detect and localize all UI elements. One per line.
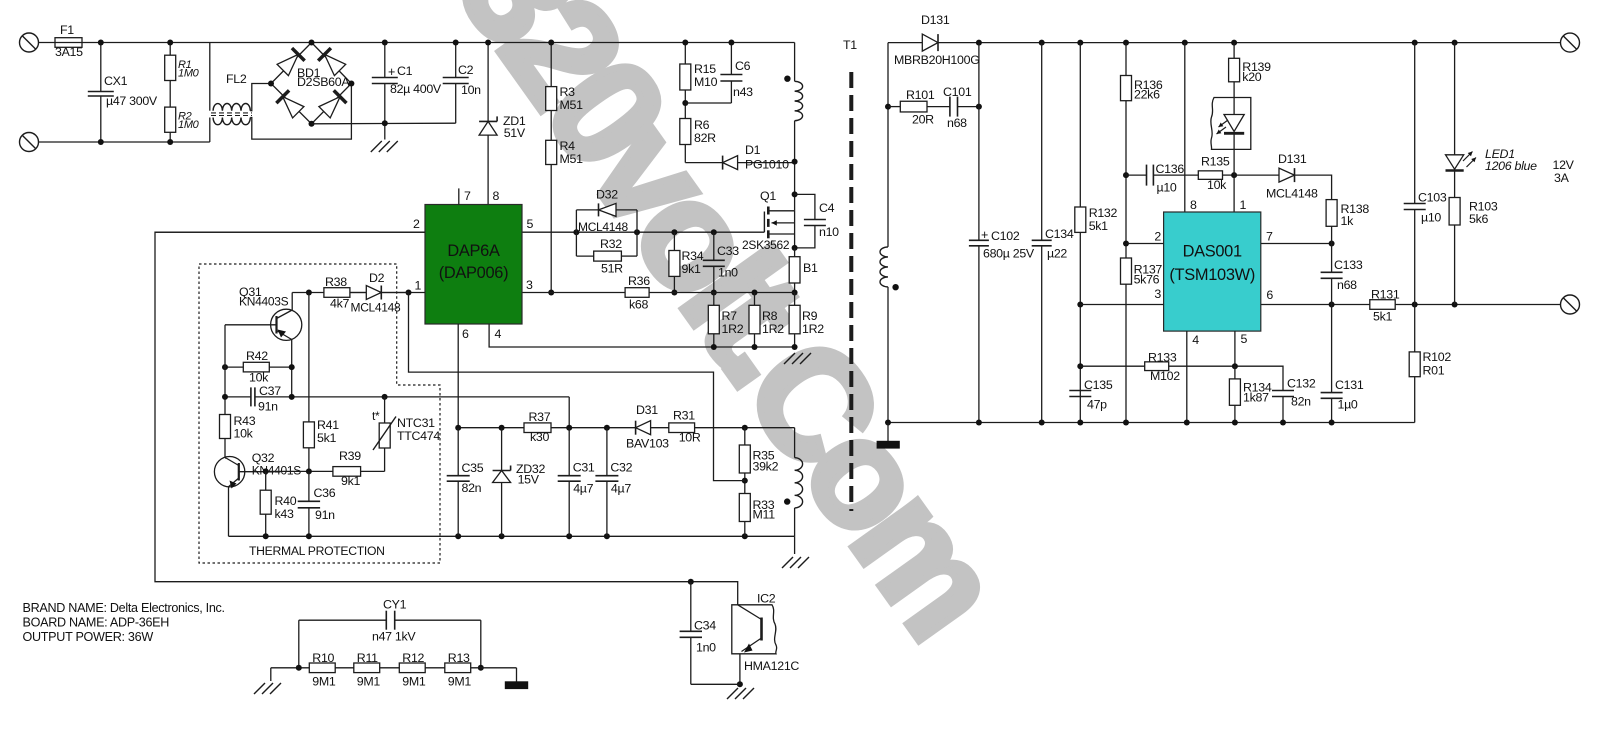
svg-text:D131: D131 [1278, 152, 1307, 166]
svg-text:10n: 10n [461, 83, 481, 97]
svg-text:R132: R132 [1089, 206, 1118, 220]
svg-text:R42: R42 [246, 349, 268, 363]
svg-text:8: 8 [1190, 198, 1197, 212]
svg-text:C134: C134 [1045, 227, 1074, 241]
svg-text:BRAND NAME: Delta Electronics,: BRAND NAME: Delta Electronics, Inc. [23, 601, 225, 615]
svg-text:15V: 15V [518, 473, 540, 487]
svg-text:9k1: 9k1 [341, 474, 360, 488]
svg-text:4: 4 [495, 327, 502, 341]
svg-text:1206 blue: 1206 blue [1485, 159, 1537, 173]
svg-text:R36: R36 [628, 274, 650, 288]
svg-text:51R: 51R [601, 262, 623, 276]
svg-text:9M1: 9M1 [312, 675, 336, 689]
svg-text:R102: R102 [1423, 350, 1452, 364]
svg-text:KN4403S: KN4403S [239, 295, 289, 309]
svg-text:D131: D131 [921, 13, 950, 27]
svg-text:91n: 91n [258, 400, 278, 414]
svg-text:R13: R13 [448, 651, 470, 665]
svg-text:82n: 82n [462, 481, 482, 495]
svg-text:PG1010: PG1010 [745, 158, 789, 172]
svg-text:MCL4148: MCL4148 [578, 220, 629, 234]
svg-text:HMA121C: HMA121C [744, 659, 799, 673]
svg-text:M51: M51 [560, 98, 584, 112]
svg-text:n68: n68 [947, 116, 967, 130]
svg-text:MBRB20H100G: MBRB20H100G [894, 53, 980, 67]
svg-text:C33: C33 [717, 244, 739, 258]
svg-text:k43: k43 [275, 507, 294, 521]
svg-text:8: 8 [493, 189, 500, 203]
svg-text:B1: B1 [803, 261, 818, 275]
svg-text:3: 3 [526, 278, 533, 292]
svg-text:R133: R133 [1148, 351, 1177, 365]
svg-text:1n0: 1n0 [696, 641, 716, 655]
svg-text:4µ7: 4µ7 [573, 482, 593, 496]
svg-text:1: 1 [1240, 198, 1247, 212]
svg-text:1M0: 1M0 [178, 119, 200, 131]
svg-text:1µ0: 1µ0 [1338, 398, 1358, 412]
svg-text:BOARD NAME: ADP-36EH: BOARD NAME: ADP-36EH [23, 616, 170, 630]
svg-text:3A15: 3A15 [55, 45, 83, 59]
svg-text:(DAP006): (DAP006) [439, 264, 509, 282]
svg-text:M102: M102 [1150, 369, 1180, 383]
svg-text:R15: R15 [694, 62, 716, 76]
svg-text:1R2: 1R2 [722, 322, 744, 336]
svg-text:3: 3 [1154, 287, 1161, 301]
svg-text:µ22: µ22 [1047, 247, 1067, 261]
svg-text:82n: 82n [1291, 395, 1311, 409]
svg-text:2SK3562: 2SK3562 [742, 238, 790, 252]
svg-text:D2SB60A: D2SB60A [297, 75, 350, 89]
svg-text:5k76: 5k76 [1134, 273, 1160, 287]
svg-text:C4: C4 [819, 201, 835, 215]
svg-text:6: 6 [462, 327, 469, 341]
svg-text:4k7: 4k7 [330, 297, 349, 311]
svg-text:5: 5 [527, 217, 534, 231]
svg-text:k68: k68 [629, 298, 648, 312]
svg-text:MCL4148: MCL4148 [1266, 187, 1318, 201]
svg-text:C31: C31 [573, 461, 595, 475]
svg-text:C35: C35 [462, 461, 484, 475]
svg-text:47p: 47p [1087, 398, 1107, 412]
svg-text:k30: k30 [530, 430, 549, 444]
svg-text:4: 4 [1192, 333, 1199, 347]
svg-text:1: 1 [415, 279, 422, 293]
svg-text:R11: R11 [357, 651, 378, 665]
svg-text:5k6: 5k6 [1469, 212, 1488, 226]
svg-text:t*: t* [372, 409, 380, 423]
svg-text:5k1: 5k1 [1373, 310, 1392, 324]
svg-text:D31: D31 [636, 403, 658, 417]
svg-text:Q1: Q1 [760, 189, 776, 203]
svg-text:OUTPUT POWER: 36W: OUTPUT POWER: 36W [23, 630, 154, 644]
svg-text:R37: R37 [529, 410, 551, 424]
svg-text:FL2: FL2 [226, 72, 247, 86]
svg-text:51V: 51V [504, 126, 526, 140]
svg-text:R32: R32 [600, 237, 622, 251]
svg-text:2: 2 [413, 217, 420, 231]
svg-text:22k6: 22k6 [1134, 88, 1160, 102]
svg-text:C131: C131 [1335, 378, 1364, 392]
svg-text:7: 7 [1266, 230, 1273, 244]
svg-text:20R: 20R [912, 113, 934, 127]
svg-text:D2: D2 [369, 271, 385, 285]
svg-text:+: + [981, 228, 988, 242]
svg-text:2: 2 [1154, 230, 1161, 244]
svg-text:µ10: µ10 [1157, 181, 1177, 195]
svg-text:4µ7: 4µ7 [611, 482, 631, 496]
svg-text:10k: 10k [234, 427, 254, 441]
svg-text:R39: R39 [339, 449, 361, 463]
svg-text:C36: C36 [314, 486, 336, 500]
svg-text:BAV103: BAV103 [626, 437, 669, 451]
svg-text:R135: R135 [1201, 155, 1230, 169]
svg-text:C102: C102 [991, 229, 1020, 243]
svg-text:R131: R131 [1371, 288, 1400, 302]
svg-text:82R: 82R [694, 131, 716, 145]
svg-text:µ47 300V: µ47 300V [106, 94, 158, 108]
svg-text:M11: M11 [753, 508, 776, 522]
svg-text:R34: R34 [682, 249, 704, 263]
svg-text:DAP6A: DAP6A [447, 242, 500, 260]
svg-text:9M1: 9M1 [448, 675, 472, 689]
svg-text:C136: C136 [1156, 162, 1185, 176]
svg-text:1R2: 1R2 [802, 322, 824, 336]
svg-text:µ10: µ10 [1421, 211, 1441, 225]
svg-text:C32: C32 [610, 461, 632, 475]
svg-text:DAS001: DAS001 [1183, 243, 1242, 261]
svg-text:R38: R38 [325, 275, 347, 289]
svg-text:7: 7 [464, 189, 471, 203]
svg-text:R6: R6 [694, 118, 710, 132]
svg-text:R01: R01 [1423, 364, 1445, 378]
svg-text:1n0: 1n0 [718, 266, 738, 280]
svg-text:5: 5 [1241, 332, 1248, 346]
svg-text:THERMAL PROTECTION: THERMAL PROTECTION [249, 544, 385, 558]
svg-text:CX1: CX1 [104, 74, 128, 88]
svg-text:680µ 25V: 680µ 25V [983, 247, 1035, 261]
svg-text:R10: R10 [312, 651, 334, 665]
svg-text:C34: C34 [694, 619, 716, 633]
svg-text:MCL4148: MCL4148 [351, 301, 402, 315]
svg-text:D32: D32 [596, 188, 618, 202]
svg-text:+: + [388, 65, 395, 79]
svg-text:91n: 91n [315, 508, 335, 522]
svg-text:1R2: 1R2 [762, 322, 784, 336]
svg-text:9M1: 9M1 [402, 675, 426, 689]
svg-text:9M1: 9M1 [357, 675, 381, 689]
svg-text:9k1: 9k1 [682, 262, 701, 276]
svg-text:R3: R3 [560, 85, 576, 99]
svg-text:R41: R41 [317, 418, 339, 432]
svg-text:C2: C2 [458, 63, 474, 77]
svg-text:10k: 10k [1207, 178, 1227, 192]
svg-text:12V: 12V [1553, 158, 1575, 172]
svg-text:IC2: IC2 [757, 592, 776, 606]
svg-text:D1: D1 [745, 143, 761, 157]
svg-text:NTC31: NTC31 [397, 416, 435, 430]
svg-text:R12: R12 [402, 651, 424, 665]
svg-text:10R: 10R [679, 431, 701, 445]
svg-text:M10: M10 [694, 75, 718, 89]
svg-text:C103: C103 [1418, 191, 1447, 205]
svg-text:n10: n10 [819, 225, 839, 239]
svg-text:R31: R31 [673, 409, 695, 423]
svg-text:k20: k20 [1242, 70, 1261, 84]
svg-text:TTC474: TTC474 [397, 429, 440, 443]
svg-text:C132: C132 [1287, 377, 1316, 391]
svg-text:5k1: 5k1 [1089, 219, 1108, 233]
svg-text:3A: 3A [1554, 171, 1570, 185]
svg-text:F1: F1 [60, 23, 74, 37]
svg-text:(TSM103W): (TSM103W) [1169, 266, 1255, 284]
svg-text:n68: n68 [1337, 278, 1357, 292]
svg-text:C37: C37 [259, 384, 281, 398]
svg-text:82µ 400V: 82µ 400V [390, 82, 442, 96]
svg-text:n43: n43 [733, 85, 753, 99]
svg-text:CY1: CY1 [383, 598, 407, 612]
svg-text:C6: C6 [735, 59, 751, 73]
svg-text:10k: 10k [249, 371, 269, 385]
svg-text:1M0: 1M0 [178, 68, 200, 80]
svg-text:6: 6 [1266, 288, 1273, 302]
svg-text:1k: 1k [1341, 214, 1355, 228]
svg-text:C133: C133 [1334, 258, 1363, 272]
svg-text:5k1: 5k1 [317, 431, 336, 445]
svg-text:KN4401S: KN4401S [252, 464, 302, 478]
svg-text:R4: R4 [560, 139, 576, 153]
svg-text:C101: C101 [943, 85, 972, 99]
svg-text:39k2: 39k2 [753, 460, 779, 474]
svg-text:R101: R101 [906, 88, 935, 102]
svg-text:T1: T1 [843, 38, 857, 52]
svg-text:M51: M51 [560, 152, 584, 166]
svg-text:C1: C1 [397, 64, 413, 78]
svg-text:R40: R40 [275, 494, 297, 508]
svg-text:C135: C135 [1084, 378, 1113, 392]
svg-text:1k87: 1k87 [1243, 391, 1269, 405]
svg-text:n47 1kV: n47 1kV [372, 630, 416, 644]
